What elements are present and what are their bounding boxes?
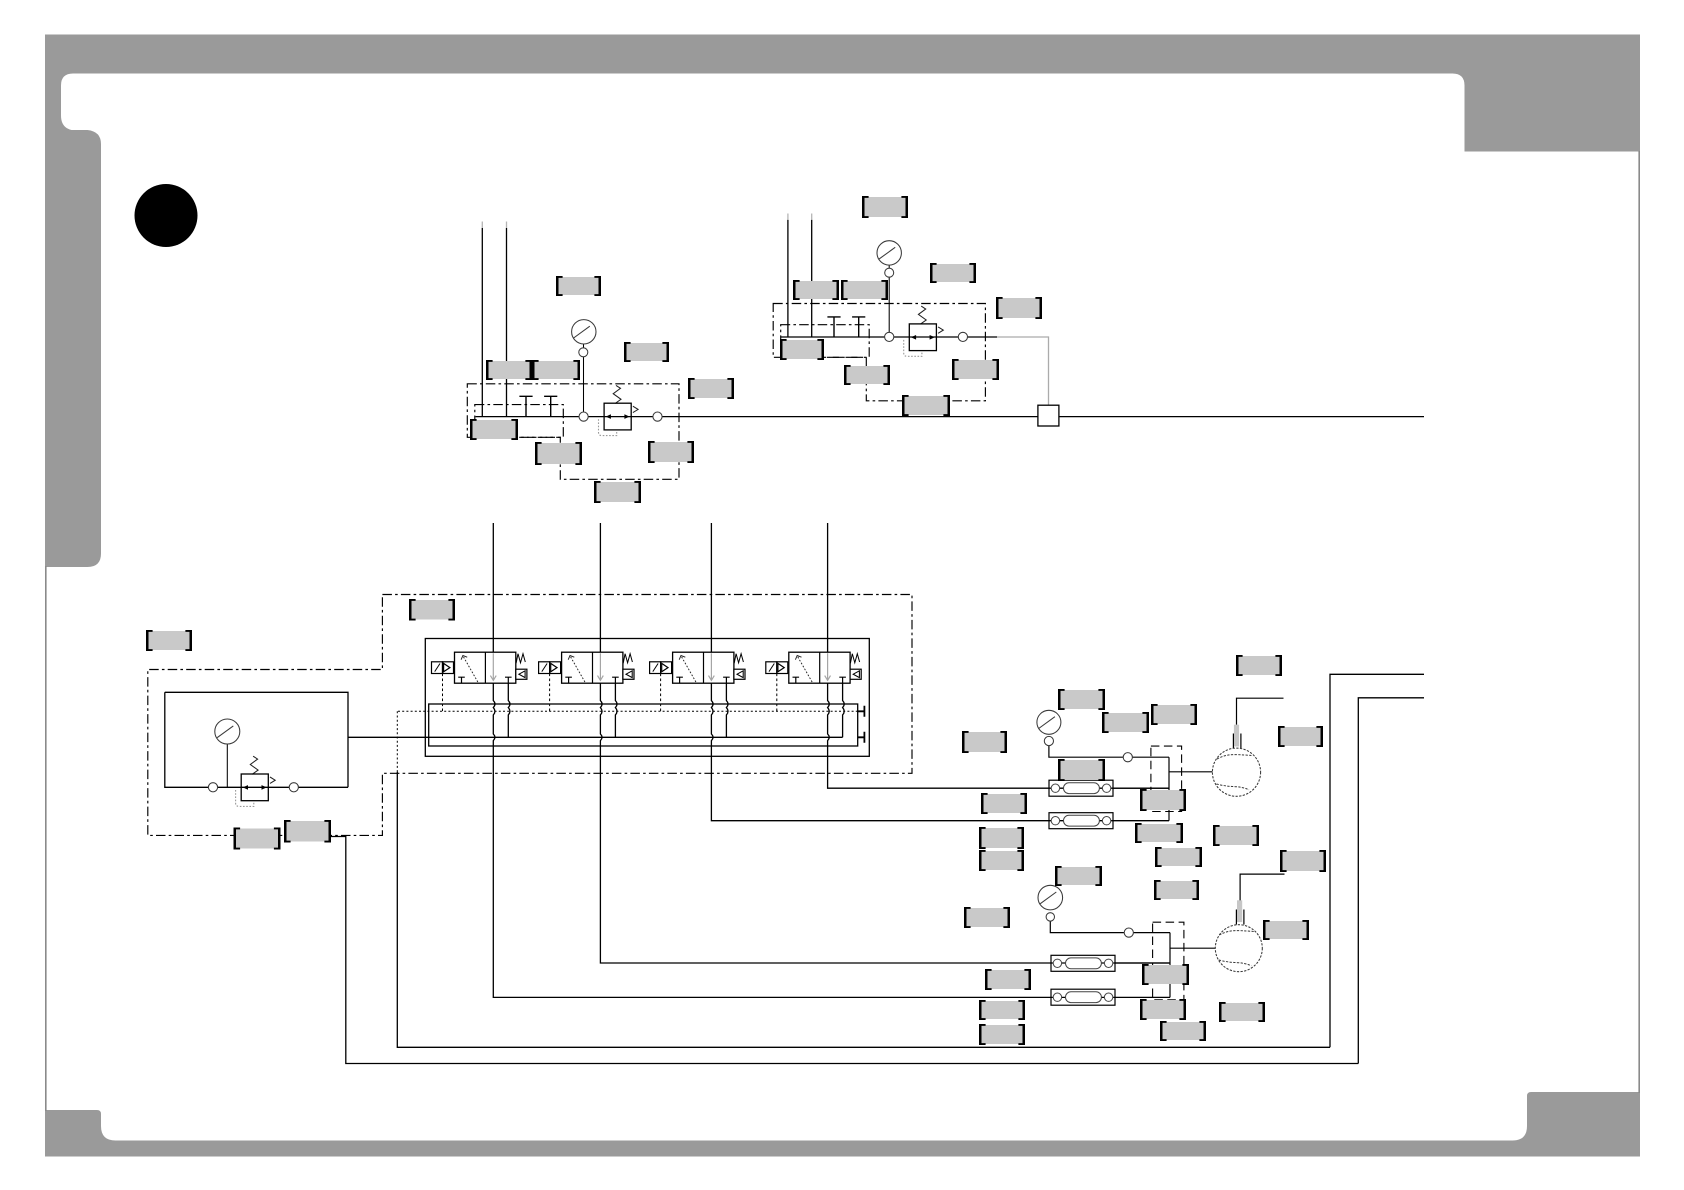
label box 41 [1263,920,1309,940]
gray link wire from assembly 2 to check valve [997,337,1049,405]
assembly 2 pilot port tee A [827,317,840,337]
section marker dot [135,184,198,247]
supply line to rear air spring 2 [493,523,1170,997]
label box 12 [841,280,888,300]
return spring of manifold valve 1 [516,654,525,664]
assembly 2 enclosure (dash-dot) [773,304,985,401]
assembly 2 line port circle A [885,332,894,341]
lower assembly gauge port circle [1046,913,1054,921]
port stub of manifold valve 4 [843,683,845,737]
supply loop circuit [165,692,843,787]
label box 15 [780,339,824,360]
assembly 1 pilot port tee B [544,396,557,416]
body of manifold valve 3 [673,652,734,683]
assembly 1 inner enclosure (dash-dot) [475,405,564,438]
pilot solenoid of manifold valve 4 [766,662,788,674]
label box 31 [1140,789,1186,811]
pilot line of manifold valve 1 [442,674,444,712]
upper assembly enclosure (dash-dot) [1151,746,1182,811]
return spring of manifold valve 3 [734,654,743,664]
port stub of manifold valve 3 [726,683,728,737]
label box 14 [996,297,1042,319]
pilot solenoid of manifold valve 2 [539,662,561,674]
left gauge stem [226,744,228,787]
lower capsule 1 link to bus [1115,962,1171,964]
label box 39 [1154,880,1199,900]
label box 13 [930,263,976,283]
lower compressor intake stem [1236,900,1244,924]
label box 32 [1135,823,1183,843]
label box 24 [1058,689,1105,710]
assembly 2 line port circle B [958,332,967,341]
lower compressor [1215,925,1262,972]
exhaust port box of manifold valve 2 [623,669,634,679]
label box 42 [985,969,1031,990]
pilot solenoid of manifold valve 3 [650,662,672,674]
label box 48 [1219,1002,1265,1022]
upper compressor intake stem [1233,725,1241,749]
wire from reservoir label to right-side riser 2 [331,837,1358,1064]
label box 30 [981,793,1027,814]
check valve joint on main line [1038,405,1059,426]
label box 47 [1160,1021,1206,1041]
upper air spring capsule 1 [1049,780,1113,796]
assembly 1 gauge stem [583,344,585,413]
pilot bus line leaving manifold (dotted segment) [396,711,398,772]
label box 25 [1102,712,1149,733]
label box 5 [688,378,734,399]
main air line from valve assembly 1 to reservoir port [476,416,1425,418]
upper compressor intake line [1237,698,1284,725]
label box 36 [1280,850,1326,872]
assembly 1 pilot port tee A [519,396,532,416]
assembly 1 gauge port circle [579,348,588,357]
assembly 2 pilot port tee B [852,317,865,337]
assembly 2 inner enclosure (dash-dot) [781,325,870,358]
assembly 1 supply risers [482,228,506,417]
lower assembly gauge line [1050,921,1170,933]
flow arrow of manifold valve 4 [825,653,831,680]
assembly 2 gauge port circle [885,268,894,277]
upper assembly line port circle [1123,753,1132,762]
label box 37 [1055,866,1102,886]
right-side riser 2 up to open port [1358,698,1424,1064]
supply line to front air spring 2 [711,523,1169,821]
label box 38 [1155,847,1202,867]
label box 34 [979,850,1024,871]
return spring of manifold valve 2 [623,654,632,664]
port stub of manifold valve 1 [508,683,510,737]
upper compressor feed line [1169,771,1213,773]
lower compressor intake line [1240,874,1284,902]
label box 28 [1278,726,1323,747]
label box 10 [862,196,908,218]
upper assembly pressure gauge [1037,710,1061,734]
supply line to rear air spring 1 [600,523,1170,963]
assembly 2 gauge stem [888,265,890,334]
right-side riser wire up to open port [1330,674,1424,1047]
exhaust port box of manifold valve 3 [734,669,745,679]
assembly 2 riser fade tips [788,214,812,220]
assembly 1 pressure gauge [572,320,596,344]
label box 33 [979,827,1024,849]
lower air spring capsule 1 [1051,955,1115,971]
port stub of manifold valve 2 [615,683,617,737]
assembly 2 main line [781,336,997,338]
body of manifold valve 1 [455,652,516,683]
manifold gallery block [429,704,858,746]
label box 16 [844,365,890,385]
pilot line of manifold valve 2 [549,674,551,712]
assembly 1 riser fade tips [482,222,506,229]
assembly 1 line port circle A [579,412,588,421]
label box 22 [409,599,455,621]
assembly 1 line port circle B [653,412,662,421]
label box 44 [979,1000,1025,1020]
label box 3 [486,360,532,380]
assembly 1 pressure regulator [599,385,639,435]
upper air spring capsule 2 [1049,813,1113,829]
left pressure gauge [215,719,240,744]
label box 40 [964,907,1010,928]
pilot line of manifold valve 4 [776,674,778,712]
label box 45 [979,1024,1025,1045]
label box 35 [1213,825,1259,846]
lower assembly distribution bus [1169,933,1171,998]
system boundary (dash-dot) [148,595,912,836]
assembly 1 enclosure (dash-dot) [467,384,679,480]
label box 26 [1151,704,1197,725]
lower air spring capsule 2 [1051,989,1115,1005]
exhaust port box of manifold valve 4 [850,669,861,679]
label box 43 [1142,964,1189,985]
return spring of manifold valve 4 [850,654,859,664]
assembly 2 pressure regulator [904,306,944,356]
wire from pilot bus down and right to right-side riser [397,772,1330,1047]
manifold pilot bus (dotted) [398,710,864,712]
upper assembly gauge line [1049,746,1169,758]
label box 6 [470,419,518,440]
supply line to front air spring 1 [828,523,1169,788]
label box 27 [962,731,1007,753]
left pressure regulator [236,756,276,806]
label box 46 [1140,999,1186,1020]
lower assembly pressure gauge [1038,885,1063,910]
label box 2 [624,342,669,362]
label box 21 [284,820,331,843]
label box 11 [793,280,839,300]
pilot solenoid of manifold valve 1 [432,662,454,674]
label box 18 [902,395,950,416]
exhaust port box of manifold valve 1 [516,669,527,679]
label box 4 [532,360,580,380]
loop port circle A [208,783,217,792]
loop port circle B [289,783,298,792]
upper compressor [1212,748,1260,796]
flow arrow of manifold valve 1 [490,653,496,680]
lower assembly enclosure (dash-dot) [1153,922,1184,1000]
body of manifold valve 2 [562,652,623,683]
supply gallery end plug [858,732,865,743]
flow arrow of manifold valve 2 [598,653,604,680]
pilot line of manifold valve 3 [660,674,662,712]
label box 19 [146,630,192,651]
assembly 2 supply risers [788,220,812,337]
label box 23 [1236,655,1282,676]
pilot bus end plug [858,706,865,717]
lower compressor feed line [1170,947,1215,949]
upper capsule 1 link to bus [1113,787,1169,789]
label box 29 [1058,759,1105,781]
flow arrow of manifold valve 3 [709,653,715,680]
label box 9 [594,481,641,503]
label box 7 [535,442,582,465]
label box 8 [648,441,694,463]
label box 1 [556,276,601,296]
lower assembly line port circle [1124,928,1133,937]
upper assembly gauge port circle [1044,736,1053,745]
assembly 2 pressure gauge [877,241,901,265]
manifold housing [425,639,869,757]
upper assembly distribution bus [1168,757,1170,821]
label box 17 [952,359,999,380]
label box 20 [234,828,281,850]
body of manifold valve 4 [789,652,850,683]
